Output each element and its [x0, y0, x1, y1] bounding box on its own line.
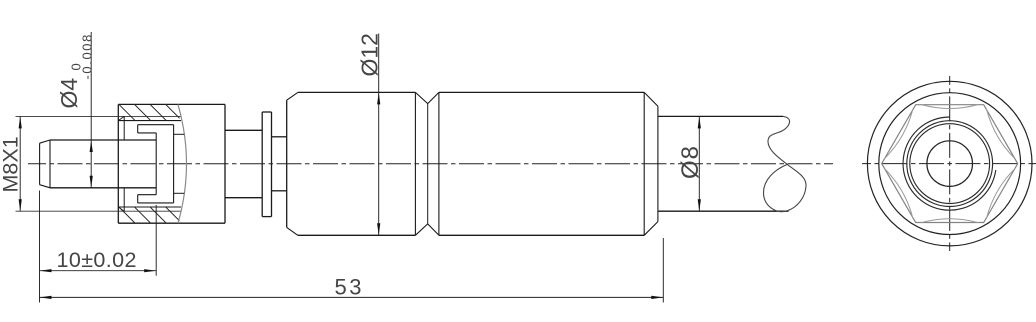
circle r40 [910, 124, 990, 204]
neck left of washer [225, 129, 262, 131]
hex chamfer arcs [921, 105, 979, 109]
end view centerline horizontal [862, 163, 1036, 165]
dimension Ø4 with tolerance [90, 32, 92, 188]
thread 3/4 arc [903, 117, 996, 210]
circle r43 [907, 121, 993, 207]
svg-text:Ø8: Ø8 [677, 145, 704, 179]
dimension Ø12 [378, 34, 380, 236]
V groove [415, 92, 427, 103]
svg-text:53: 53 [335, 275, 364, 300]
nut spherical face curve [178, 104, 187, 223]
cable Ø8 [658, 115, 783, 117]
dimension M8X1 [19, 116, 21, 211]
main body section 1 Ø12 [286, 100, 288, 227]
nut hex body outline (section) [118, 103, 225, 105]
svg-text:10±0.02: 10±0.02 [57, 248, 137, 272]
outer circle [867, 81, 1032, 246]
small circle [927, 141, 973, 187]
svg-text:-0.008: -0.008 [79, 33, 94, 79]
inner clamp sleeve [138, 124, 174, 126]
svg-text:Ø4: Ø4 [56, 78, 82, 109]
end view centerline vertical [949, 76, 951, 251]
svg-text:M8X1: M8X1 [0, 136, 22, 192]
centerline side view [28, 163, 833, 165]
neck right of washer [272, 136, 287, 138]
break squiggle [764, 116, 807, 211]
main body section 2 [438, 92, 440, 235]
thread major diameter thin lines + M8X1 extension lines [16, 115, 181, 117]
thread bore lines [118, 120, 181, 122]
circle Ø12 body [879, 93, 1021, 235]
washer flange [262, 111, 271, 113]
nut mouth inner chamfer [123, 116, 125, 140]
tip cylinder Ø4 [50, 139, 156, 141]
dimension Ø8 [698, 116, 700, 211]
dimension 10±0.02 [40, 270, 157, 272]
hexagon [882, 105, 1018, 223]
dimension 53 [40, 296, 664, 298]
tip chamfer [39, 143, 41, 185]
svg-text:Ø12: Ø12 [357, 33, 383, 76]
extension lines bottom dims [39, 191, 41, 303]
